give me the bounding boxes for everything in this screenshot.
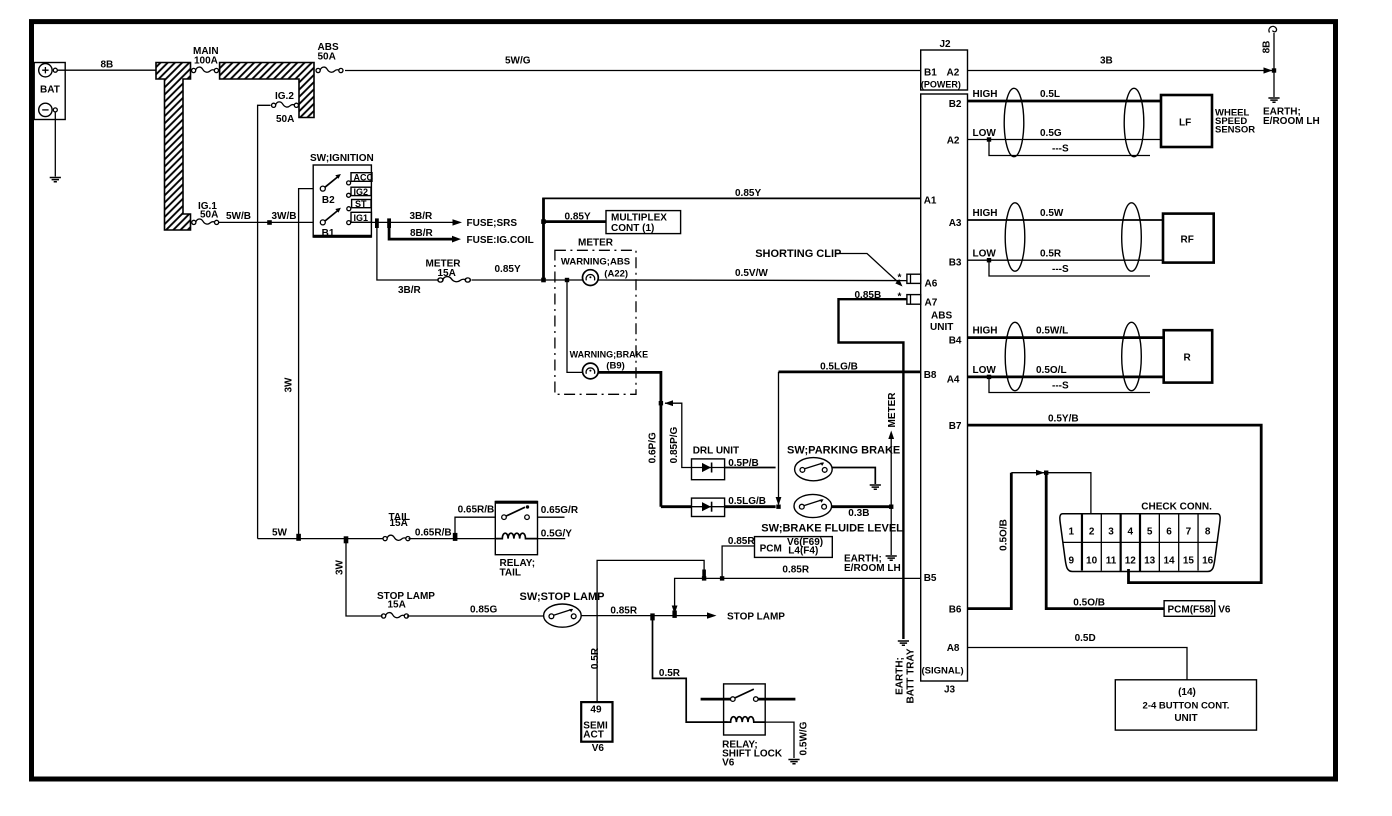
svg-text:MULTIPLEX: MULTIPLEX (611, 213, 667, 224)
svg-text:EARTH;: EARTH; (895, 657, 906, 695)
meter cluster dashed box (555, 250, 636, 394)
wire 0.5LG/B DRL to brake fluid switch (thick) (725, 505, 776, 508)
wire 8B battery positive to fusible link (57, 69, 156, 71)
svg-text:(B9): (B9) (606, 361, 624, 372)
svg-text:0.5W: 0.5W (1040, 208, 1064, 219)
svg-text:UNIT: UNIT (930, 322, 953, 333)
svg-text:SW;IGNITION: SW;IGNITION (310, 153, 374, 164)
svg-text:A2: A2 (947, 68, 960, 79)
svg-text:0.3B: 0.3B (848, 508, 869, 519)
connector block A7 (907, 295, 921, 305)
wire 0.5V/W warning ABS lamp to A6 (598, 279, 907, 282)
wire 0.3B fluid switch to meter line (thick) (831, 505, 891, 508)
svg-text:PCM(F58): PCM(F58) (1168, 604, 1214, 615)
wire shift lock switch stubs (thick) (701, 698, 796, 701)
wire LF shield (987, 137, 991, 141)
svg-text:4: 4 (1128, 527, 1134, 538)
junction shift lock branch (650, 613, 654, 620)
svg-text:8B: 8B (101, 60, 114, 71)
svg-text:0.85B: 0.85B (855, 290, 882, 301)
svg-text:5W: 5W (272, 528, 288, 539)
svg-text:R: R (1184, 353, 1192, 364)
box B1 A2 (POWER) (921, 50, 968, 90)
fuse IG.2 50A (272, 102, 299, 108)
svg-text:PCM: PCM (760, 544, 782, 555)
wire 3B/R to METER fuse (377, 222, 438, 280)
wire 0.5D ABS A8 to 2-4 button control unit (968, 648, 1188, 680)
connector CHECK CONN. (1060, 502, 1220, 572)
wire 0.5W/G shift lock coil to ground (765, 722, 794, 758)
junction PCM branch on B5 line (720, 576, 724, 580)
svg-text:12: 12 (1125, 556, 1137, 567)
svg-text:A2: A2 (947, 135, 960, 146)
fuse MAIN 100A (192, 67, 219, 73)
svg-text:B7: B7 (949, 421, 962, 432)
wire battery negative to ground (54, 112, 56, 177)
wire 8B/R to FUSE:IG.COIL (thick) (389, 222, 452, 239)
svg-text:V6: V6 (1218, 604, 1231, 615)
junction multiplex branch (541, 219, 546, 224)
battery BAT (34, 63, 65, 120)
ground earth E/ROOM LH top right (1268, 98, 1279, 102)
svg-text:5: 5 (1147, 527, 1153, 538)
svg-text:LOW: LOW (973, 365, 997, 376)
junction IG1 branch 1 (375, 218, 379, 228)
diode DRL 1 (692, 459, 725, 480)
junction at thick vertical (541, 278, 546, 283)
svg-text:A3: A3 (949, 218, 962, 229)
svg-text:DRL UNIT: DRL UNIT (693, 446, 739, 457)
svg-text:0.5R: 0.5R (1040, 249, 1062, 260)
junction 3W stop branch (344, 536, 349, 543)
svg-text:METER: METER (887, 392, 898, 428)
svg-text:WARNING;BRAKE: WARNING;BRAKE (570, 349, 649, 359)
svg-text:0.5Y/B: 0.5Y/B (1048, 414, 1079, 425)
wire 0.5LG/B ABS B8 to fluid row (779, 370, 921, 373)
svg-text:IG.2: IG.2 (275, 91, 294, 102)
wire 0.5P/B DRL to parking brake switch (725, 467, 776, 469)
svg-text:5W/B: 5W/B (226, 211, 251, 222)
wire IG.2 output down to 5W line (258, 105, 271, 538)
wire 0.85R stop lamp switch output (581, 615, 708, 617)
wire 0.85G stop fuse to stop lamp switch (407, 615, 544, 617)
svg-text:B5: B5 (924, 573, 937, 584)
svg-text:1: 1 (1069, 527, 1075, 538)
svg-text:HIGH: HIGH (973, 326, 998, 337)
svg-text:B2: B2 (322, 195, 335, 206)
ground battery (50, 178, 61, 182)
junction semi-act riser on B5 line (702, 576, 706, 580)
svg-text:0.5W/G: 0.5W/G (799, 721, 810, 755)
svg-text:---S: ---S (1052, 381, 1069, 392)
wire brake lamp output (thick) to DRL bus (598, 372, 661, 506)
wire 0.5O/B to PCM(F58) (thick) (1046, 473, 1164, 609)
shield ellipse R left (1005, 322, 1025, 390)
svg-text:14: 14 (1163, 556, 1175, 567)
svg-text:SW;BRAKE FLUIDE LEVEL: SW;BRAKE FLUIDE LEVEL (761, 522, 903, 534)
svg-text:0.65R/B: 0.65R/B (415, 527, 452, 538)
junction IG1 branch 2 (387, 218, 391, 228)
wire 0.85Y to multiplex unit (thick) (544, 220, 607, 223)
junction on 3W/B line (267, 220, 272, 225)
svg-text:0.5D: 0.5D (1075, 633, 1096, 644)
sensor LF box (1161, 95, 1212, 147)
svg-text:0.5LG/B: 0.5LG/B (728, 496, 766, 507)
svg-text:13: 13 (1144, 556, 1156, 567)
svg-text:49: 49 (590, 704, 602, 715)
svg-text:A4: A4 (947, 375, 960, 386)
svg-text:0.5R: 0.5R (590, 647, 601, 669)
wire parking brake switch to ground (832, 468, 875, 485)
svg-text:0.5W/L: 0.5W/L (1036, 326, 1068, 337)
junction B8 drop joins fluid row (776, 505, 780, 509)
wire 0.85B shorting clip A7 to earth BATT TRAY (thick) (839, 299, 907, 639)
svg-text:B1: B1 (924, 68, 937, 79)
svg-text:0.5O/B: 0.5O/B (1073, 597, 1105, 608)
unit ABS UNIT main box (921, 94, 968, 681)
svg-text:0.65G/R: 0.65G/R (541, 505, 579, 516)
svg-text:---S: ---S (1052, 264, 1069, 275)
svg-text:0.5G/Y: 0.5G/Y (541, 529, 572, 540)
svg-text:0.5R: 0.5R (659, 668, 681, 679)
svg-text:(SIGNAL): (SIGNAL) (922, 666, 964, 677)
svg-text:WARNING;ABS: WARNING;ABS (561, 256, 630, 267)
junction DRL feed tap (659, 401, 663, 405)
svg-text:V6: V6 (592, 743, 605, 754)
svg-text:B6: B6 (949, 605, 962, 616)
wire 0.5G/Y tail relay coil output (538, 538, 566, 540)
wire 0.5O/B ABS B6 riser (thick) (968, 473, 1012, 609)
svg-text:FUSE;SRS: FUSE;SRS (467, 218, 518, 229)
svg-text:SENSOR: SENSOR (1215, 125, 1255, 136)
svg-text:0.85Y: 0.85Y (735, 188, 761, 199)
svg-text:IG1: IG1 (354, 213, 369, 223)
svg-text:0.5G: 0.5G (1040, 128, 1062, 139)
svg-text:3W/B: 3W/B (272, 211, 297, 222)
switch SW;IGNITION (310, 153, 374, 239)
svg-text:100A: 100A (194, 56, 218, 67)
svg-text:CONT (1): CONT (1) (611, 223, 654, 234)
wire 0.5R stop line to shift lock relay coil (653, 616, 728, 723)
svg-text:STOP LAMP: STOP LAMP (377, 591, 435, 602)
wire 8B pigtail at top right (1273, 33, 1275, 97)
svg-text:*: * (898, 292, 902, 303)
svg-text:0.65R/B: 0.65R/B (458, 504, 495, 515)
svg-text:*: * (898, 273, 902, 284)
wire 0.85Y to ABS unit A1 (542, 197, 920, 199)
wire 0.65R/B branch to relay switch (455, 517, 495, 538)
svg-text:---S: ---S (1052, 144, 1069, 155)
svg-text:CHECK CONN.: CHECK CONN. (1141, 502, 1212, 513)
svg-text:0.5L: 0.5L (1040, 89, 1060, 100)
svg-text:3B/R: 3B/R (398, 285, 422, 296)
wire 3B power A2 to earth junction (968, 70, 1275, 72)
wire 0.5O/L R low (thick) (968, 375, 1164, 378)
wire RF shield (987, 258, 991, 262)
wire 0.5W RF high (968, 219, 1164, 221)
shield ellipse LF left (1004, 88, 1024, 156)
svg-text:0.5O/L: 0.5O/L (1036, 365, 1067, 376)
switch SW;BRAKE FLUIDE LEVEL (794, 494, 832, 517)
svg-text:HIGH: HIGH (973, 208, 998, 219)
wire 0.5W/L R high (thick) (968, 336, 1164, 339)
svg-text:2: 2 (1089, 527, 1095, 538)
wire 3W branch down to stop lamp fuse (346, 539, 383, 616)
svg-text:B4: B4 (949, 335, 962, 346)
svg-text:J2: J2 (940, 39, 952, 50)
svg-text:0.85Y: 0.85Y (495, 264, 521, 275)
svg-text:J3: J3 (944, 685, 956, 696)
svg-text:0.5LG/B: 0.5LG/B (820, 362, 858, 373)
junction B2 branch joins 5W line (296, 534, 301, 541)
wire 5W/G fusible link to ABS unit B1 (345, 70, 920, 72)
svg-text:0.5P/B: 0.5P/B (728, 458, 759, 469)
svg-text:E/ROOM LH: E/ROOM LH (1263, 116, 1320, 127)
svg-text:3W: 3W (335, 559, 346, 575)
svg-text:8: 8 (1205, 527, 1211, 538)
svg-text:BATT TRAY: BATT TRAY (906, 648, 917, 703)
svg-text:16: 16 (1202, 556, 1214, 567)
svg-text:V6: V6 (722, 758, 735, 769)
svg-text:STOP LAMP: STOP LAMP (727, 612, 785, 623)
svg-text:50A: 50A (318, 52, 336, 63)
junction meter line (889, 505, 893, 509)
svg-text:15A: 15A (438, 268, 456, 279)
svg-text:0.85P/G: 0.85P/G (669, 426, 680, 463)
svg-text:50A: 50A (276, 114, 294, 125)
sensor R box (1164, 330, 1213, 382)
ground earth E/ROOM LH (meter line) (886, 556, 897, 560)
svg-text:0.85G: 0.85G (470, 605, 497, 616)
svg-text:2-4 BUTTON CONT.: 2-4 BUTTON CONT. (1143, 701, 1230, 712)
wire 3B/R IG1 to FUSE;SRS (351, 221, 454, 223)
svg-text:15A: 15A (388, 600, 406, 611)
wire 5W/B 3W/B IG.1 to ignition switch B1 (219, 221, 314, 223)
svg-text:6: 6 (1166, 527, 1172, 538)
ground shift lock relay (788, 760, 799, 764)
svg-text:FUSE:IG.COIL: FUSE:IG.COIL (467, 235, 534, 246)
wire 0.85P/G feed to DRL unit diode 1 (665, 403, 692, 467)
svg-text:ACC: ACC (354, 173, 374, 183)
svg-text:8B/R: 8B/R (410, 228, 434, 239)
svg-text:B8: B8 (924, 370, 937, 381)
svg-text:0.6P/G: 0.6P/G (648, 432, 659, 463)
svg-text:11: 11 (1106, 556, 1117, 567)
svg-text:B3: B3 (949, 258, 962, 269)
svg-text:SW;PARKING BRAKE: SW;PARKING BRAKE (787, 445, 900, 457)
svg-text:A8: A8 (947, 643, 960, 654)
svg-text:ST: ST (355, 199, 367, 209)
wire DRL bus to DRL unit diode 2 (thick) (661, 505, 692, 508)
svg-text:0.85Y: 0.85Y (565, 212, 591, 223)
unit 2-4 BUTTON CONT. UNIT (1115, 680, 1256, 730)
wire 0.85R to PCM (722, 546, 754, 578)
svg-text:9: 9 (1069, 556, 1075, 567)
wire R shield (987, 375, 991, 379)
svg-text:0.5O/B: 0.5O/B (999, 519, 1010, 551)
svg-text:3B: 3B (1100, 56, 1113, 67)
svg-text:TAIL: TAIL (500, 567, 521, 578)
fuse ABS 50A (316, 67, 343, 73)
svg-text:IG2: IG2 (354, 187, 369, 197)
svg-text:B1: B1 (322, 228, 335, 239)
svg-text:(A22): (A22) (604, 269, 628, 280)
svg-text:A1: A1 (924, 196, 937, 207)
svg-text:8B: 8B (1262, 41, 1273, 54)
junction warning brake branch (565, 278, 569, 282)
sensor RF box (1163, 214, 1214, 263)
svg-text:10: 10 (1086, 556, 1098, 567)
connector block A6 (907, 274, 921, 283)
relay RELAY;SHIFT LOCK V6 (722, 684, 783, 769)
junction PCM F58 branch (1044, 471, 1048, 475)
ground parking brake (870, 485, 881, 489)
svg-text:BAT: BAT (40, 85, 60, 96)
shield ellipse RF left (1005, 203, 1025, 271)
svg-text:0.85R: 0.85R (782, 565, 809, 576)
svg-text:E/ROOM LH: E/ROOM LH (844, 563, 901, 574)
wire 0.65G/R tail relay switch output (538, 516, 565, 518)
shield ellipse RF right (1122, 203, 1142, 271)
svg-text:ACT: ACT (583, 729, 604, 740)
svg-text:L4(F4): L4(F4) (788, 546, 818, 557)
box PCM V6(F69) L4(F4) (755, 537, 833, 558)
svg-text:3B/R: 3B/R (410, 211, 434, 222)
fusible link busbar right (hatched) (220, 63, 314, 118)
wire 0.85Y METER fuse to warning lamp feed (472, 279, 583, 281)
fuse METER 15A (438, 277, 470, 283)
junction B5 riser (672, 611, 676, 618)
svg-text:B2: B2 (949, 99, 962, 110)
svg-text:0.85R: 0.85R (728, 536, 755, 547)
svg-text:ABS: ABS (931, 310, 952, 321)
svg-text:3W: 3W (284, 377, 295, 393)
svg-text:0.85R: 0.85R (610, 606, 637, 617)
relay RELAY;TAIL (495, 502, 537, 579)
svg-text:LOW: LOW (973, 249, 997, 260)
svg-text:HIGH: HIGH (973, 89, 998, 100)
wire 0.5Y/B ABS B7 to check connector pin 12 (thick) (968, 425, 1262, 582)
svg-text:5W/G: 5W/G (505, 56, 531, 67)
wire 0.5G LF low (968, 139, 1162, 141)
svg-text:15: 15 (1183, 556, 1195, 567)
svg-text:LOW: LOW (973, 128, 997, 139)
svg-text:3: 3 (1108, 527, 1114, 538)
fuse TAIL 15A (383, 535, 410, 541)
svg-text:SHORTING CLIP: SHORTING CLIP (755, 248, 841, 260)
wire 5W line to TAIL fuse (258, 538, 383, 540)
unit SEMI ACT V6 (581, 702, 612, 742)
svg-text:UNIT: UNIT (1174, 713, 1197, 724)
fusible link busbar left (hatched) (156, 63, 191, 231)
wire B5 line (675, 578, 921, 615)
fuse IG.1 50A (192, 219, 219, 225)
svg-text:0.5V/W: 0.5V/W (735, 268, 768, 279)
junction tail relay switch branch (453, 533, 458, 541)
box MULTIPLEX CONT (1) (606, 211, 681, 234)
shield ellipse R right (1122, 322, 1142, 390)
svg-text:METER: METER (578, 238, 614, 249)
box PCM(F58) (1164, 601, 1215, 617)
svg-text:LF: LF (1179, 118, 1191, 129)
svg-text:15A: 15A (390, 518, 408, 529)
svg-text:50A: 50A (200, 210, 218, 221)
svg-text:RF: RF (1181, 235, 1194, 246)
wire 0.5L LF high (thick) (968, 100, 1162, 103)
wire ignition B2 branch down to 5W line (299, 189, 314, 539)
wire to METER (arrow up) and earth E/ROOM LH (890, 434, 892, 555)
wire thick vertical riser (0.85Y bus) (542, 198, 545, 280)
wire check connector feed (1011, 473, 1091, 514)
svg-text:A7: A7 (925, 297, 938, 308)
svg-text:A6: A6 (925, 279, 938, 290)
wire 0.5R RF low (968, 259, 1164, 261)
wire 0.65R/B TAIL fuse to relay (409, 538, 496, 540)
diode DRL 2 (692, 498, 725, 516)
wire semi act riser (stop lamp line to B5 line) (597, 560, 704, 702)
svg-text:SW;STOP LAMP: SW;STOP LAMP (520, 591, 605, 603)
shield ellipse LF right (1124, 88, 1144, 156)
ground earth BATT TRAY (898, 641, 909, 645)
svg-text:7: 7 (1186, 527, 1192, 538)
svg-text:(14): (14) (1178, 687, 1196, 698)
fuse STOP LAMP 15A (382, 613, 409, 619)
svg-text:(POWER): (POWER) (921, 80, 961, 90)
